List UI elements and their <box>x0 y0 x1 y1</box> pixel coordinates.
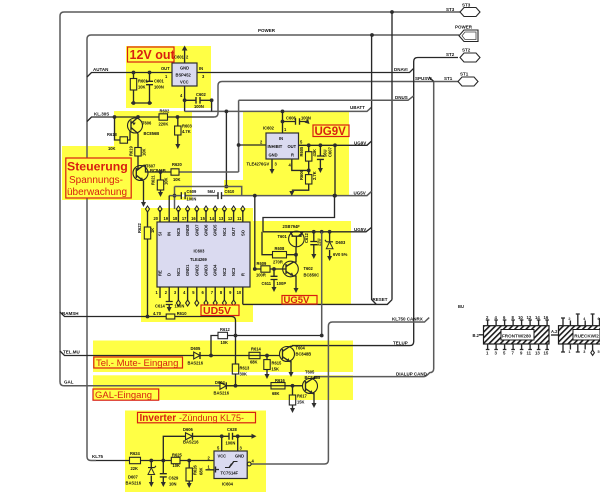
svg-text:19: 19 <box>164 216 169 221</box>
svg-text:TLE4276GV: TLE4276GV <box>247 162 270 167</box>
svg-text:R608: R608 <box>275 246 286 251</box>
svg-text:UG9V: UG9V <box>315 126 347 138</box>
junction C629 / D606 rail <box>161 459 165 463</box>
resistor R621 10K <box>151 170 169 197</box>
svg-text:T602: T602 <box>304 266 314 271</box>
svg-text:22K: 22K <box>131 466 139 471</box>
svg-text:FRONTW/280: FRONTW/280 <box>502 334 532 339</box>
IC602 TLE4276GV <box>247 126 299 167</box>
svg-text:R605: R605 <box>299 146 304 157</box>
svg-text:R612: R612 <box>220 327 231 332</box>
svg-text:IN: IN <box>199 66 203 71</box>
junction R616/R617 <box>291 384 295 388</box>
svg-text:UG5V: UG5V <box>354 191 366 196</box>
wire RESET <box>243 300 392 305</box>
yellow highlight region 12V out block <box>126 46 211 108</box>
resistor R619 10K <box>129 134 147 169</box>
IC604 TC7S14F <box>206 451 248 487</box>
svg-text:RAMSH: RAMSH <box>62 311 79 316</box>
svg-text:IN: IN <box>279 136 283 141</box>
svg-text:R603: R603 <box>182 124 193 129</box>
wire KL.30S to R602 to SPUSW/ST1 rail <box>87 117 214 122</box>
svg-text:SPUSW: SPUSW <box>415 76 432 81</box>
label 12V out <box>128 47 176 62</box>
yellow highlight region Tel-Mute row <box>93 341 353 373</box>
connector POWER tag <box>455 25 478 42</box>
svg-text:1: 1 <box>568 350 570 354</box>
svg-text:GAL: GAL <box>64 380 74 385</box>
resistor R622 1K left of IC603 <box>137 206 155 318</box>
IC603 bottom pins with numbers <box>156 287 243 306</box>
wire DNUS <box>239 96 414 101</box>
zener diode D603 6V0 <box>325 232 348 261</box>
svg-text:R: R <box>291 153 294 158</box>
svg-text:C602: C602 <box>196 92 207 97</box>
svg-text:15: 15 <box>200 216 205 221</box>
svg-text:D: D <box>167 273 172 276</box>
svg-text:IC604: IC604 <box>222 482 234 487</box>
svg-text:Steuerung: Steuerung <box>67 160 128 174</box>
svg-text:IC602: IC602 <box>263 126 275 131</box>
junction ST3/vertical <box>390 10 394 14</box>
transistor T605 BC848B <box>303 370 321 409</box>
svg-text:GND2: GND2 <box>194 264 199 276</box>
wire GAL after diode D604 <box>226 385 303 387</box>
diode D605 BAS216 <box>188 346 204 366</box>
svg-text:C612: C612 <box>304 232 309 243</box>
pin3 GND wire <box>236 434 240 438</box>
svg-text:TC7S14F: TC7S14F <box>221 471 239 476</box>
svg-text:IC601: IC601 <box>173 55 185 60</box>
wire KL75 row <box>96 460 214 462</box>
svg-text:2SB794F: 2SB794F <box>283 224 301 229</box>
vertical from gray rail to R609 <box>254 196 256 269</box>
resistor R625 10K <box>171 453 182 468</box>
svg-text:RESET: RESET <box>373 297 388 302</box>
svg-text:RE: RE <box>158 270 163 276</box>
svg-text:10K: 10K <box>173 177 181 182</box>
junction D605/R612 <box>209 354 213 358</box>
resistor R605 43K <box>299 143 317 172</box>
svg-text:11: 11 <box>527 351 532 356</box>
svg-text:B.2: B.2 <box>473 333 480 338</box>
wire bottom rail R601/C601 <box>131 102 152 104</box>
label UG5V tap (T601 rail) <box>263 227 372 231</box>
inductor L700 on RAMSH <box>166 314 175 319</box>
svg-text:TEL.MU: TEL.MU <box>63 350 80 355</box>
label Steuerung Spannungsueberwachung <box>66 158 131 198</box>
diode D606 BAS216 feedback <box>163 427 237 461</box>
yellow highlight region Steuerung lower <box>62 146 192 200</box>
svg-text:68K: 68K <box>272 391 280 396</box>
svg-text:10K: 10K <box>221 340 229 345</box>
svg-text:ST2: ST2 <box>446 52 455 57</box>
svg-text:NC1: NC1 <box>176 267 181 276</box>
IC603 bottom pin names rotated <box>158 264 246 276</box>
svg-text:R624: R624 <box>130 451 141 456</box>
svg-text:R614: R614 <box>251 347 262 352</box>
svg-text:100N: 100N <box>187 197 197 202</box>
pin5 VCC wire <box>221 436 223 451</box>
connector BU1 FRONTW <box>473 315 550 356</box>
svg-text:T605: T605 <box>305 370 315 375</box>
capacitor C601 100N <box>146 71 165 103</box>
svg-text:R615: R615 <box>272 361 283 366</box>
pin 2 supply arrow of IC601 <box>182 46 189 64</box>
junction UBATT mid <box>225 110 229 114</box>
svg-text:R610: R610 <box>177 311 188 316</box>
svg-text:12: 12 <box>527 315 532 320</box>
svg-text:BAS216: BAS216 <box>214 391 230 396</box>
pin1 wire and C606 100N <box>281 111 311 133</box>
connector ST3 <box>446 3 480 17</box>
svg-text:A.2: A.2 <box>551 329 558 334</box>
wire UBATT pullup vertical to INHIBIT rail <box>225 111 227 186</box>
wire OUT rail to gray 5V rail vertical <box>333 143 337 197</box>
svg-text:R617: R617 <box>297 394 308 399</box>
svg-text:17: 17 <box>182 216 187 221</box>
svg-text:10K: 10K <box>142 148 147 156</box>
svg-text:ST1: ST1 <box>444 76 453 81</box>
svg-text:68K: 68K <box>250 360 258 365</box>
IC603 top pins with diamonds and numbers <box>154 196 245 222</box>
svg-text:R616: R616 <box>275 378 286 383</box>
svg-text:12: 12 <box>228 216 233 221</box>
svg-text:270R: 270R <box>273 260 283 265</box>
gray UG5V rail capacitors C609 C610 <box>181 189 256 202</box>
label UG5V <box>282 295 317 306</box>
svg-text:C610: C610 <box>225 189 236 194</box>
svg-text:OUT: OUT <box>161 66 170 71</box>
resistor R608 270R <box>262 232 298 265</box>
svg-text:100N: 100N <box>175 304 185 309</box>
svg-text:TLE4269: TLE4269 <box>190 257 208 262</box>
svg-text:SO: SO <box>240 229 245 236</box>
svg-text:RUECKW/2: RUECKW/2 <box>574 334 599 339</box>
svg-text:D606: D606 <box>183 427 194 432</box>
svg-text:10K: 10K <box>173 463 181 468</box>
svg-text:UG5V: UG5V <box>354 227 366 232</box>
resistor R612 10K pullup <box>211 327 324 356</box>
svg-text:R619: R619 <box>129 145 134 156</box>
transistor T601 2SB794F <box>278 224 305 247</box>
svg-text:AUTAN: AUTAN <box>93 67 108 72</box>
label GAL Eingang <box>93 389 159 401</box>
IC604 output bubble <box>247 462 251 466</box>
svg-text:10K: 10K <box>108 146 116 151</box>
resistor R624 22K <box>130 451 141 471</box>
ground T607 emitter <box>141 181 146 207</box>
IC603 TLE4269 <box>157 222 250 287</box>
svg-text:C607: C607 <box>328 146 333 157</box>
junction R614/R615 <box>265 354 269 358</box>
resistor R602 220K <box>159 109 171 127</box>
IC IC601 BSP452 <box>172 55 197 87</box>
svg-text:BAS216: BAS216 <box>126 481 142 486</box>
svg-text:16: 16 <box>191 216 196 221</box>
svg-text:ST1: ST1 <box>460 72 469 77</box>
svg-text:C609: C609 <box>187 189 198 194</box>
capacitor C611 100P <box>262 269 287 292</box>
svg-text:NC4: NC4 <box>222 227 227 236</box>
svg-text:18: 18 <box>173 216 178 221</box>
svg-text:R618: R618 <box>107 132 118 137</box>
junction POWER/vertical <box>370 33 374 37</box>
yellow highlight region IC603 / UD5V block <box>141 208 253 322</box>
svg-text:12V out: 12V out <box>130 48 176 62</box>
svg-text:R622: R622 <box>137 222 142 233</box>
svg-text:1K: 1K <box>150 228 155 233</box>
svg-text:R602: R602 <box>160 109 171 114</box>
wire ST3 vertical x=392 <box>391 12 393 300</box>
svg-text:INHIBIT: INHIBIT <box>268 144 283 149</box>
svg-text:43K: 43K <box>312 149 317 157</box>
junction UBATT C606 <box>281 110 285 114</box>
svg-text:GND7: GND7 <box>194 224 199 236</box>
svg-text:VCC: VCC <box>218 454 227 459</box>
svg-text:BC848B: BC848B <box>305 375 321 380</box>
svg-text:13: 13 <box>535 351 540 356</box>
svg-text:BU: BU <box>458 304 464 309</box>
svg-text:UG5V: UG5V <box>284 295 311 306</box>
svg-text:OUT: OUT <box>231 227 236 236</box>
svg-text:DNUS: DNUS <box>395 95 408 100</box>
connector ST1 <box>444 72 478 87</box>
svg-text:56U: 56U <box>208 189 216 194</box>
junctions on T601 rail <box>312 230 316 234</box>
svg-text:R625: R625 <box>172 453 183 458</box>
wire POWER vertical bus x=371.6 <box>372 35 377 304</box>
svg-text:10: 10 <box>237 290 242 295</box>
svg-text:NC5: NC5 <box>176 227 181 236</box>
svg-text:22U: 22U <box>316 238 321 246</box>
svg-text:GND4: GND4 <box>213 264 218 276</box>
svg-text:ST3: ST3 <box>446 7 455 12</box>
svg-text:15K: 15K <box>297 400 305 405</box>
svg-text:KL.30S: KL.30S <box>94 112 109 117</box>
wire KL750 CANRX from inverter output <box>251 318 429 464</box>
svg-text:D604: D604 <box>215 380 226 385</box>
svg-text:OUT: OUT <box>288 144 297 149</box>
svg-text:2.7K: 2.7K <box>312 171 317 180</box>
IC603 top pin names rotated <box>158 224 246 236</box>
wire UBATT rail <box>185 107 372 111</box>
svg-text:C628: C628 <box>227 427 238 432</box>
svg-text:20: 20 <box>154 216 159 221</box>
arrow supply right of C628 <box>238 435 252 437</box>
pin2 INHIBIT wire <box>239 144 266 146</box>
svg-text:GND6: GND6 <box>204 224 209 236</box>
svg-text:10K: 10K <box>138 85 146 90</box>
transistor T606 BC856B <box>128 115 160 136</box>
svg-text:KL75: KL75 <box>92 454 104 459</box>
svg-text:SI: SI <box>158 232 163 236</box>
connector BU2 RUECKW <box>551 314 600 355</box>
svg-text:DNAVI: DNAVI <box>394 67 408 72</box>
resistor R618 10K <box>107 117 130 151</box>
pin3 GND arrow <box>270 159 278 174</box>
svg-text:30K: 30K <box>240 372 248 377</box>
yellow highlight strip left of UG9V bottom <box>224 180 243 195</box>
svg-text:TELUP: TELUP <box>393 340 408 345</box>
junction R602/R603 <box>176 115 180 119</box>
svg-text:100R: 100R <box>256 273 266 278</box>
resistor R609 100R <box>253 261 286 278</box>
svg-text:T604: T604 <box>296 346 306 351</box>
svg-text:14: 14 <box>210 216 215 221</box>
svg-text:11: 11 <box>237 216 242 221</box>
resistor R606 2.7K <box>289 169 317 196</box>
resistor R617 15K <box>289 386 307 413</box>
label Inverter Zuendung KL75 <box>138 412 256 424</box>
label UG9V <box>313 125 349 138</box>
svg-text:BC850C: BC850C <box>304 273 320 278</box>
wire RAMSH <box>60 312 236 336</box>
capacitor C602 100N on VCC pin 4 <box>180 86 214 111</box>
svg-text:R613: R613 <box>240 366 251 371</box>
capacitor C607 56U <box>317 143 333 173</box>
resistor R601 10K <box>130 71 148 103</box>
svg-text:GND3: GND3 <box>204 264 209 276</box>
resistor R616 68K <box>226 378 302 396</box>
svg-text:GND5: GND5 <box>213 224 218 236</box>
svg-text:Spannungs-: Spannungs- <box>69 175 123 186</box>
resistor R626 68K <box>186 461 204 489</box>
svg-text:T606: T606 <box>142 121 152 126</box>
svg-text:R609: R609 <box>257 261 268 266</box>
svg-text:DIALUP CAND: DIALUP CAND <box>396 371 428 376</box>
wire ST2 / vertical x=413.7 down to TELUP <box>292 58 458 346</box>
svg-text:Inverter -Zündung KL75-: Inverter -Zündung KL75- <box>140 413 245 424</box>
svg-text:C601: C601 <box>154 79 165 84</box>
svg-text:R626: R626 <box>193 464 198 475</box>
svg-text:UG9V: UG9V <box>354 141 366 146</box>
svg-text:R: R <box>240 273 245 276</box>
wire vertical SPUSW rail down to DIALUP wire <box>315 82 434 377</box>
connector ST2 <box>446 48 480 63</box>
svg-text:D605: D605 <box>191 346 202 351</box>
svg-text:BSP452: BSP452 <box>176 73 192 78</box>
capacitor C628 100N <box>226 427 238 446</box>
svg-text:220K: 220K <box>159 122 169 127</box>
svg-text:GAL-Eingang: GAL-Eingang <box>95 390 152 401</box>
transistor T604 BC848B <box>280 346 312 378</box>
svg-text:NC3: NC3 <box>231 267 236 276</box>
label SPUSW with tick <box>429 77 434 82</box>
pin4 R wire <box>289 159 309 170</box>
svg-text:überwachung: überwachung <box>67 187 127 198</box>
junction INHIBIT pin2 <box>237 143 241 147</box>
capacitor C612 22U <box>304 232 322 259</box>
wire INHIBIT mid rail y=186.5 <box>175 187 242 196</box>
resistor R620 10K <box>171 162 183 182</box>
transistor T607 BC846B <box>133 164 166 181</box>
svg-text:UBATT: UBATT <box>350 105 365 110</box>
capacitor C629 10N <box>160 461 179 488</box>
transistor T602 BC850C <box>283 255 320 293</box>
svg-text:POWER: POWER <box>258 28 276 33</box>
svg-text:C629: C629 <box>169 476 180 481</box>
svg-text:15: 15 <box>544 351 549 356</box>
label Tel Mute Eingang <box>94 357 183 369</box>
resistor R603 4.7K <box>175 117 193 149</box>
resistor R614 68K <box>249 347 262 365</box>
wire POWER rail with left vertical and KL75 wire <box>87 35 459 461</box>
svg-text:100N: 100N <box>301 116 311 121</box>
svg-text:100N: 100N <box>226 441 236 446</box>
svg-text:T601: T601 <box>278 234 288 239</box>
svg-text:16: 16 <box>544 315 549 320</box>
svg-text:GND1: GND1 <box>185 264 190 276</box>
svg-text:VCC: VCC <box>180 80 189 85</box>
svg-text:4.7K: 4.7K <box>182 129 191 134</box>
wire TELMU <box>60 351 280 356</box>
svg-text:NC2: NC2 <box>222 267 227 276</box>
svg-text:13: 13 <box>219 216 224 221</box>
diode D604 BAS216 <box>214 380 230 396</box>
svg-text:15K: 15K <box>272 367 280 372</box>
svg-text:68K: 68K <box>199 467 204 475</box>
svg-text:D603: D603 <box>336 240 347 245</box>
junction D607 <box>149 459 153 463</box>
yellow highlight region GAL row <box>93 375 353 400</box>
resistor R613 30K <box>232 336 250 388</box>
wire step from gray rail to T601 rail <box>263 194 336 232</box>
svg-text:5: 5 <box>598 350 600 354</box>
capacitor C614 100N on pin2 <box>155 302 184 313</box>
svg-text:GND8: GND8 <box>185 224 190 236</box>
svg-text:UD5V: UD5V <box>203 305 231 317</box>
resistor R615 15K <box>264 356 282 380</box>
junction R626 <box>187 459 191 463</box>
yellow highlight region UG9V block <box>243 112 349 195</box>
svg-text:R621: R621 <box>151 174 156 185</box>
wire T607 collector to R620 to INHIBIT <box>144 165 172 172</box>
svg-text:R606: R606 <box>299 169 304 180</box>
svg-text:IC603: IC603 <box>194 249 206 254</box>
svg-text:KL750 CANRX: KL750 CANRX <box>392 317 423 322</box>
svg-text:10: 10 <box>518 315 523 320</box>
svg-text:4.70: 4.70 <box>153 311 162 316</box>
svg-text:10K: 10K <box>164 177 169 185</box>
svg-text:ST3: ST3 <box>462 3 471 8</box>
svg-text:GND: GND <box>269 153 278 158</box>
yellow highlight region Steuerung upper <box>114 111 192 146</box>
svg-text:2: 2 <box>568 317 570 321</box>
svg-text:3: 3 <box>583 350 585 354</box>
svg-text:BC856B: BC856B <box>144 131 160 136</box>
wire ST3 rail with left vertical and GAL wire <box>60 12 460 386</box>
svg-text:D607: D607 <box>128 475 139 480</box>
yellow highlight region UG5V block <box>252 221 351 305</box>
svg-text:Tel.- Mute- Eingang: Tel.- Mute- Eingang <box>96 358 178 369</box>
svg-text:100N: 100N <box>154 85 164 90</box>
svg-text:IN: IN <box>167 232 172 236</box>
svg-text:BC848B: BC848B <box>296 352 312 357</box>
svg-text:POWER: POWER <box>455 25 473 30</box>
svg-text:BAS216: BAS216 <box>188 361 204 366</box>
svg-text:6V0 5%: 6V0 5% <box>333 252 348 257</box>
svg-text:C606: C606 <box>286 116 297 121</box>
svg-text:6: 6 <box>598 317 600 321</box>
svg-text:GND: GND <box>180 66 189 71</box>
svg-text:GND: GND <box>235 454 244 459</box>
label UD5V <box>201 305 239 317</box>
yellow highlight region Inverter block <box>125 411 266 493</box>
svg-text:100N: 100N <box>194 104 204 109</box>
svg-text:100P: 100P <box>277 281 287 286</box>
svg-text:BAS216: BAS216 <box>183 440 199 445</box>
